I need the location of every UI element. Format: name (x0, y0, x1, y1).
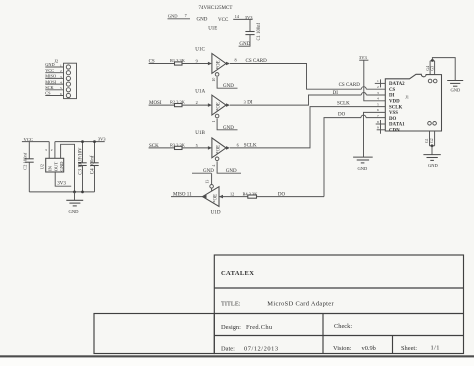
wire (364, 60, 386, 101)
buffer U1B (149, 130, 257, 174)
svg-text:1/1: 1/1 (431, 345, 440, 352)
svg-text:OUT: OUT (53, 162, 58, 172)
OE bubble (215, 73, 219, 77)
OE bubble (210, 185, 214, 189)
svg-text:8: 8 (235, 57, 237, 62)
svg-text:Vision:: Vision: (333, 345, 352, 352)
svg-text:C3 10UF/10V: C3 10UF/10V (79, 147, 84, 175)
svg-text:1: 1 (377, 79, 379, 83)
input pin 12 (219, 195, 223, 199)
wire (149, 63, 175, 65)
svg-text:DO: DO (338, 112, 346, 117)
wire (211, 173, 213, 184)
svg-text:5: 5 (60, 86, 62, 90)
svg-text:C4 100nf: C4 100nf (91, 155, 96, 174)
svg-text:GND: GND (59, 161, 64, 172)
OE bubble (215, 157, 219, 161)
svg-text:GND: GND (226, 169, 237, 174)
IC U1E 74VHC125MCT power section (199, 6, 233, 32)
ground symbol top right (447, 81, 463, 93)
svg-text:CS: CS (45, 91, 51, 96)
wire (171, 196, 203, 198)
svg-text:4: 4 (377, 97, 379, 101)
svg-text:GND: GND (203, 169, 214, 174)
wire SCLK from U1B to J1 (230, 107, 385, 148)
svg-text:v0.9b: v0.9b (362, 345, 376, 352)
title block (94, 255, 464, 354)
svg-text:5: 5 (377, 102, 379, 106)
svg-text:*OE: *OE (216, 145, 221, 154)
J1 pin names (389, 82, 405, 133)
svg-text:CS CARD: CS CARD (339, 83, 361, 88)
svg-text:2: 2 (196, 100, 198, 105)
svg-text:3: 3 (45, 148, 47, 152)
J2 pin 1 GND (45, 62, 70, 69)
wire (182, 147, 208, 149)
buffer U1D (171, 169, 324, 215)
buffer U1C (149, 47, 268, 89)
svg-text:CS: CS (389, 88, 396, 93)
svg-text:3: 3 (60, 75, 62, 79)
svg-text:4: 4 (212, 165, 216, 167)
ground symbol below J1 (353, 157, 373, 171)
svg-text:9: 9 (377, 126, 379, 130)
svg-text:U2: U2 (40, 164, 45, 169)
connector J2 (54, 58, 76, 98)
svg-text:MicroSD Card Adapter: MicroSD Card Adapter (267, 301, 334, 308)
J1 pin 8 stub (376, 123, 386, 125)
wire (149, 147, 175, 149)
svg-text:07/12/2013: 07/12/2013 (244, 345, 279, 352)
svg-text:Design:: Design: (221, 324, 241, 331)
J1 shield pads G1 G2 (425, 122, 436, 155)
svg-text:2: 2 (51, 148, 53, 152)
svg-text:6: 6 (377, 108, 379, 112)
wire DO from R4 to J1 (324, 118, 361, 197)
wire CS CARD from U1C to J1 (230, 64, 361, 90)
svg-text:*OE: *OE (216, 102, 221, 111)
svg-text:GND: GND (197, 18, 208, 23)
J2 pin 5 SCK (45, 85, 70, 92)
output pin 8 (226, 62, 230, 66)
svg-text:GND: GND (69, 209, 80, 214)
triangle U1D (203, 187, 220, 207)
svg-text:GND: GND (428, 163, 438, 168)
capacitor C3 10UF/10V (78, 142, 86, 192)
wire (149, 104, 175, 106)
svg-text:GND: GND (451, 88, 461, 93)
wire (429, 131, 431, 146)
J1 pin numbers (377, 79, 379, 129)
junction dots on rails (81, 140, 84, 143)
svg-text:SCK: SCK (45, 85, 54, 90)
svg-text:5: 5 (196, 143, 198, 148)
J2 pin 4 MOSI (45, 79, 70, 86)
svg-text:J1: J1 (405, 95, 409, 100)
svg-text:DO: DO (389, 117, 397, 122)
wire (182, 63, 208, 65)
wire (217, 77, 237, 88)
ground net label GND at C1 (239, 42, 251, 47)
wire VSS to ground (364, 112, 386, 157)
output pin 6 (226, 146, 230, 150)
svg-text:VSS: VSS (389, 111, 398, 116)
svg-text:3: 3 (377, 91, 379, 95)
svg-text:1: 1 (60, 63, 62, 67)
svg-text:G3: G3 (431, 66, 435, 71)
triangle U1A (212, 95, 226, 115)
junction (431, 144, 434, 147)
svg-text:VCC: VCC (218, 18, 229, 23)
svg-text:C2 100nf: C2 100nf (23, 152, 28, 170)
svg-text:VDD: VDD (389, 100, 400, 105)
J1 pin 1 stub (375, 82, 386, 84)
microSD socket J1 (385, 74, 441, 131)
pin 14 VCC to 3V3 (218, 14, 253, 23)
svg-text:U1D: U1D (211, 210, 221, 216)
J1 pin 9 stub (377, 129, 386, 131)
svg-text:8: 8 (377, 120, 379, 124)
svg-text:GND: GND (223, 84, 234, 89)
regulator U2 (40, 158, 65, 172)
svg-text:J2: J2 (54, 58, 58, 63)
svg-text:12: 12 (230, 192, 234, 197)
svg-text:1: 1 (212, 121, 216, 123)
wire (217, 119, 237, 130)
svg-text:6: 6 (60, 92, 62, 96)
svg-text:3V3: 3V3 (359, 55, 367, 60)
svg-text:Check:: Check: (334, 323, 352, 330)
svg-text:U1E: U1E (208, 27, 217, 32)
svg-text:TITLE:: TITLE: (221, 300, 241, 307)
svg-text:MOSI: MOSI (45, 79, 56, 84)
svg-text:3: 3 (244, 100, 246, 105)
wire (182, 104, 208, 106)
svg-text:DATA1: DATA1 (389, 123, 405, 128)
buffer U1A (149, 88, 253, 131)
svg-text:SCLK: SCLK (337, 102, 350, 107)
wire (168, 18, 191, 20)
svg-text:*OE: *OE (214, 194, 219, 203)
svg-text:C1 100nf: C1 100nf (257, 22, 262, 40)
svg-text:6: 6 (237, 142, 239, 147)
svg-text:GND: GND (358, 166, 368, 171)
svg-text:IN: IN (48, 165, 53, 171)
svg-text:7: 7 (185, 13, 187, 18)
wire DI from U1A to J1 (230, 95, 361, 105)
svg-text:GND: GND (168, 13, 178, 18)
svg-text:13: 13 (205, 180, 209, 184)
svg-text:U1B: U1B (195, 130, 205, 136)
svg-text:CDN: CDN (389, 128, 400, 133)
svg-text:DI: DI (333, 91, 339, 96)
OE bubble (215, 114, 219, 118)
junction (431, 59, 434, 62)
svg-text:4: 4 (60, 81, 62, 85)
svg-text:9: 9 (196, 58, 198, 63)
svg-text:VCC: VCC (45, 68, 54, 73)
J1 shield pads G4 G3 (426, 58, 455, 83)
svg-text:7: 7 (377, 114, 379, 118)
J2 pin 3 MISO (45, 74, 70, 81)
svg-text:CATALEX: CATALEX (221, 270, 254, 277)
svg-text:Date:: Date: (221, 345, 235, 352)
svg-text:*OE: *OE (216, 60, 221, 69)
power 3V3 at J1 (359, 55, 385, 101)
svg-text:U1C: U1C (195, 47, 205, 53)
svg-text:DATA2: DATA2 (389, 82, 405, 87)
svg-text:G2: G2 (430, 138, 434, 143)
triangle U1B (212, 138, 226, 158)
svg-text:G4: G4 (426, 66, 430, 71)
ground symbol regulator (66, 192, 83, 214)
wire (233, 18, 252, 20)
svg-text:10: 10 (212, 78, 216, 82)
svg-text:2: 2 (377, 85, 379, 89)
svg-text:U1A: U1A (195, 88, 205, 94)
svg-text:GND: GND (45, 62, 54, 67)
svg-text:14: 14 (235, 14, 240, 19)
wire VCC rail (22, 141, 49, 143)
wire to DO (257, 196, 325, 198)
svg-text:3V3: 3V3 (98, 137, 107, 142)
svg-text:SCLK: SCLK (389, 105, 403, 110)
J2 pin 2 VCC (45, 68, 70, 75)
svg-text:Fred.Chu: Fred.Chu (246, 324, 273, 331)
wire (429, 61, 431, 75)
svg-text:MISO: MISO (45, 74, 56, 79)
wire (217, 161, 241, 173)
svg-text:R4 3.3K: R4 3.3K (243, 192, 259, 197)
output pin 3 (226, 103, 230, 107)
wire ground rail (29, 191, 94, 193)
svg-text:2: 2 (60, 69, 62, 73)
ground symbol bottom right (423, 155, 440, 168)
wire U2 OUT to 3V3 label (55, 172, 71, 186)
svg-text:GND: GND (223, 126, 234, 131)
triangle U1C (212, 54, 226, 74)
bottom scan band (0, 355, 474, 357)
wire U2 GND to rail (61, 144, 75, 192)
wire 3V3 rail (55, 141, 105, 143)
svg-text:DO: DO (278, 193, 286, 198)
svg-text:3V3: 3V3 (57, 182, 66, 187)
svg-text:Sheet:: Sheet: (401, 345, 417, 352)
capacitor C2 100nf (23, 142, 34, 192)
svg-text:DI: DI (389, 94, 395, 99)
capacitor C4 100nf (90, 142, 98, 192)
J2 pin 6 CS (45, 91, 70, 98)
pin 7 GND net label (168, 13, 208, 22)
svg-text:74VHC125MCT: 74VHC125MCT (199, 6, 233, 11)
capacitor C1 100nf (245, 19, 262, 46)
svg-text:G1: G1 (425, 138, 429, 143)
